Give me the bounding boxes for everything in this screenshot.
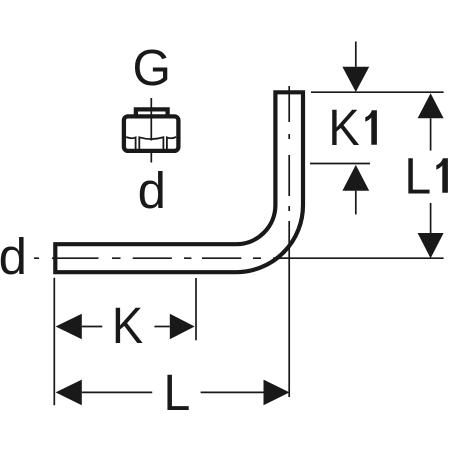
svg-text:K: K [112,298,144,354]
svg-text:G: G [133,40,171,97]
svg-text:d: d [0,228,27,285]
svg-text:L: L [163,364,190,422]
svg-text:L: L [404,147,431,205]
svg-text:d: d [138,162,166,219]
svg-text:K: K [328,100,360,156]
